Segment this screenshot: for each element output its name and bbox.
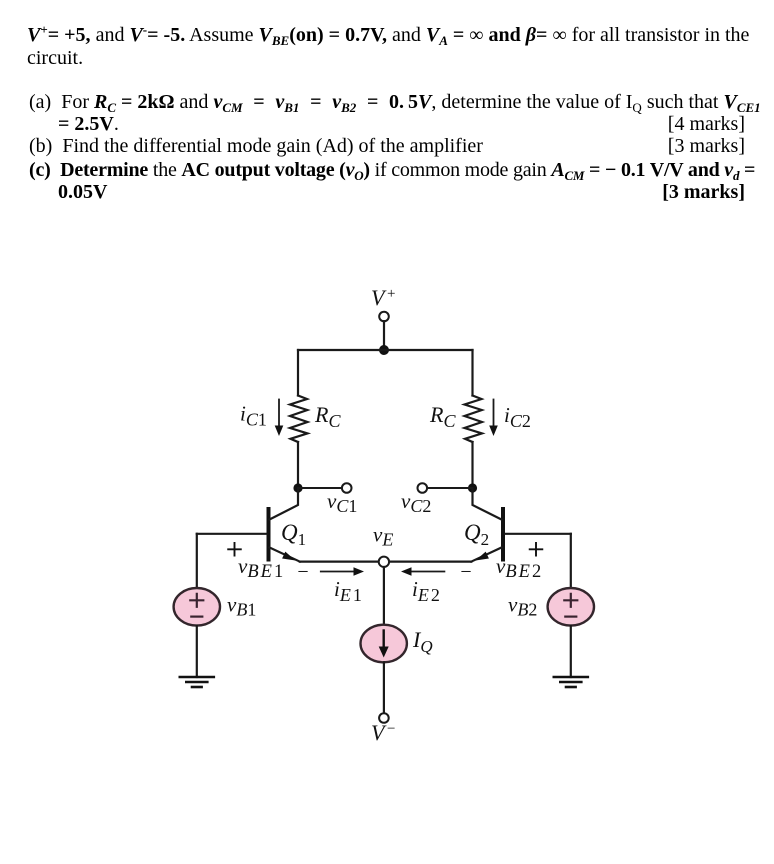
label V- [371,720,395,745]
svg-text:+: + [387,286,395,302]
svg-text:Q1: Q1 [281,520,306,549]
junction dot collector Q2 [468,483,477,492]
wire left down to vB1 [196,534,198,588]
svg-text:iE2: iE2 [412,577,442,605]
voltage source vB1 [174,588,257,626]
label vBE2 [496,554,543,582]
svg-text:−: − [297,561,308,583]
junction dot at rail [379,345,389,355]
wire collector node to vC2 terminal [427,487,473,489]
svg-text:vC2: vC2 [401,489,431,516]
wire rail to right resistor [471,350,473,396]
svg-text:−: − [387,721,395,737]
current source IQ [361,625,433,663]
resistor RC (left) [290,396,341,443]
svg-text:vB1: vB1 [227,593,256,620]
svg-text:RC: RC [314,402,341,431]
svg-text:vBE2: vBE2 [496,554,543,582]
transistor Q1 [269,488,307,562]
svg-text:vE: vE [373,523,393,550]
node V- terminal [379,713,389,723]
wire right resistor to collector node [471,442,473,488]
svg-text:iC1: iC1 [240,402,267,430]
resistor RC (right) [429,396,482,443]
svg-text:iC2: iC2 [504,403,531,431]
label V+ [371,285,395,310]
wire V+ to rail [383,321,385,350]
svg-text:IQ: IQ [412,627,433,656]
svg-text:−: − [460,561,471,583]
node vC1 terminal [327,483,357,516]
svg-text:vB2: vB2 [508,593,537,620]
polarity - vBE2 [460,561,471,583]
current arrow iE2 [401,567,444,605]
junction dot collector Q1 [293,483,302,492]
wire IQ to V- [383,662,385,713]
current arrow iC2 [489,400,531,437]
current arrow iC1 [240,400,283,437]
node vC2 terminal [401,483,431,516]
wire vB2 to ground [570,626,572,677]
wire emitter bus left [300,560,379,562]
transistor Q2 [464,488,503,562]
wire collector node to vC1 terminal [298,487,342,489]
wire vB1 to ground [196,626,198,677]
wire right down to vB2 [570,534,572,588]
node V+ terminal [379,312,389,322]
node vE [373,523,393,568]
svg-text:Q2: Q2 [464,520,489,549]
polarity - vBE1 [297,561,308,583]
current arrow iE1 [321,567,364,605]
wire base Q1 [197,533,267,535]
wire base Q2 [505,533,571,535]
polarity + vBE1 [228,543,241,556]
wire emitter bus right [389,560,471,562]
wire rail to left resistor [297,350,299,396]
wire top rail [298,349,473,351]
ground (left) [180,677,214,687]
wire vE to IQ [383,567,385,625]
svg-text:V: V [371,285,387,310]
label vBE1 [238,554,285,582]
wire left resistor to collector node [297,442,299,488]
svg-text:vC1: vC1 [327,489,357,516]
svg-text:RC: RC [429,402,456,431]
voltage source vB2 [508,588,594,626]
svg-text:vBE1: vBE1 [238,554,285,582]
polarity + vBE2 [530,543,543,556]
ground (right) [554,677,588,687]
svg-text:iE1: iE1 [334,577,364,605]
